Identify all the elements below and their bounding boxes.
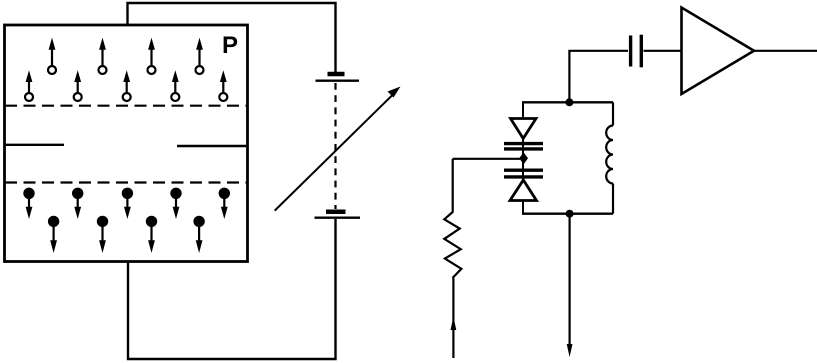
varactor D1 (upper, cathode bars down) <box>504 119 543 149</box>
output pull-down wire with down arrow <box>567 214 573 357</box>
tank loop bottom wire <box>522 212 613 214</box>
positive carriers row B (open circles, up arrows) <box>25 70 227 101</box>
battery cell 2 short plate <box>326 209 346 214</box>
negative carriers row C (filled circles, down arrows) <box>24 189 229 219</box>
varactor D2 (lower, mirrored) <box>504 170 543 200</box>
wire from box top to battery positive <box>128 3 336 73</box>
inductor L <box>606 102 613 213</box>
wire from battery negative to box bottom <box>128 219 336 359</box>
junction node top <box>565 98 573 106</box>
capacitor C plate right <box>640 35 643 68</box>
resistor R <box>444 212 461 278</box>
tank loop top wire <box>522 101 613 103</box>
dashed battery extension <box>334 83 336 209</box>
chamber box P <box>5 25 248 262</box>
battery cell 1 short plate <box>328 72 345 77</box>
wire node to capacitor <box>569 51 628 103</box>
varactor branch center line <box>522 102 524 214</box>
slit line right <box>177 145 246 147</box>
dashed line upper region <box>5 105 247 107</box>
junction node bottom <box>566 210 574 218</box>
battery cell 2 long plate <box>315 216 361 218</box>
amplifier A1 <box>682 8 755 95</box>
variable adjustment arrow across battery <box>275 87 401 211</box>
capacitor C plate left <box>629 36 632 67</box>
wire to varactor center node <box>453 158 520 160</box>
negative carriers row D (filled circles, down arrows) <box>49 217 204 253</box>
input wire with up arrow <box>451 278 457 358</box>
slit line left <box>4 144 64 146</box>
wire resistor top to junction <box>452 159 454 213</box>
output wire <box>754 50 817 52</box>
varactor center node <box>519 152 528 164</box>
wire capacitor to amplifier <box>644 50 682 52</box>
dashed line lower region <box>5 181 247 183</box>
positive carriers row A (open circles, up arrows) <box>48 38 204 74</box>
battery cell 1 long plate <box>316 79 360 81</box>
svg-text:P: P <box>222 32 238 59</box>
